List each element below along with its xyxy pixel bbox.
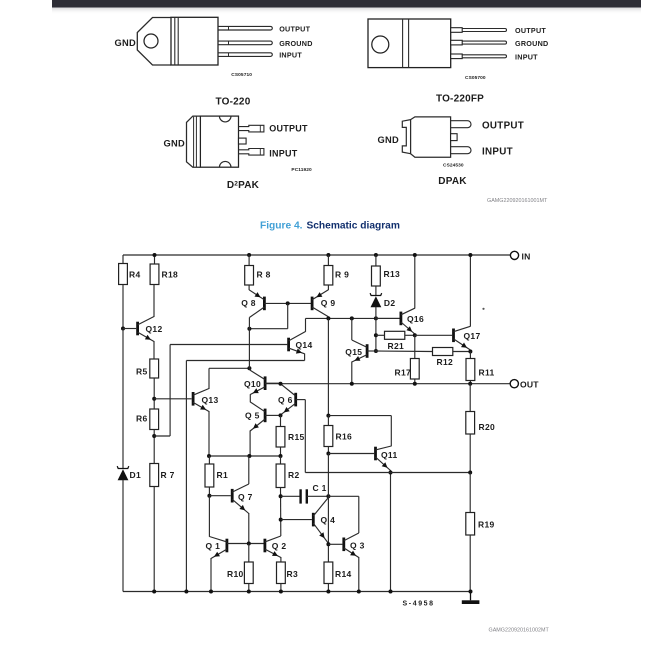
D2PAK tab outline — [187, 116, 201, 167]
wire Q1 emitter drop to ground rail — [210, 558, 212, 592]
wire R2 top lead — [280, 456, 282, 464]
wire R9 bottom stub to Q9 emitter — [327, 285, 329, 290]
DPAK lead 2 (INPUT) — [451, 147, 471, 154]
wire base junction drop — [287, 303, 289, 328]
svg-text:INPUT: INPUT — [269, 149, 298, 159]
TO-220 lead 3 (INPUT) — [218, 53, 272, 57]
wire Q13 collector to Q8 collector column — [209, 367, 249, 369]
wire C1 junction to Q3 collector — [328, 495, 358, 497]
ground symbol — [470, 592, 472, 601]
TO-220FP mounting hole — [372, 36, 389, 53]
node Q6 emitter R15 top Q5 base — [279, 413, 283, 417]
TO-220FP body line 2 — [408, 19, 410, 68]
wire R2 bottom column — [280, 488, 282, 537]
svg-text:Q 3: Q 3 — [350, 540, 365, 550]
transistor Q16 — [399, 312, 402, 326]
wire R1 top lead — [208, 456, 210, 464]
wire R8 bottom stub — [248, 285, 250, 290]
transistor Q3 — [342, 538, 345, 552]
node Q15 emitter at OUT rail — [350, 382, 354, 386]
wire Q14 emitter elbow — [304, 354, 306, 361]
wire Q8-Q9 base run — [264, 302, 311, 304]
svg-text:S-4958: S-4958 — [403, 601, 435, 608]
D2PAK top notch — [219, 116, 231, 122]
svg-text:R15: R15 — [288, 432, 305, 442]
svg-text:R 9: R 9 — [335, 270, 349, 280]
wire Q10 base to OUT rail node — [265, 382, 280, 384]
DPAK lead 1 (OUTPUT) — [451, 121, 471, 128]
node Q12 base junction — [121, 327, 125, 331]
svg-text:R12: R12 — [437, 357, 454, 367]
wire Q17 collector riser to rail — [469, 255, 471, 327]
wire R18 bottom to Q12 collector — [153, 285, 155, 318]
wire ground rail — [123, 591, 471, 593]
DPAK body — [411, 117, 451, 157]
wire R21 left lead — [376, 334, 385, 336]
wire R11 bottom lead — [469, 381, 471, 384]
transistor Q9 — [311, 297, 314, 311]
transistor Q15 — [366, 344, 369, 358]
D2PAK bottom notch — [219, 161, 231, 167]
wire R4 bottom to Q12 base node — [122, 285, 124, 329]
resistor R3 — [277, 562, 286, 584]
svg-text:INPUT: INPUT — [482, 146, 513, 157]
wire R12 left run — [376, 350, 433, 353]
svg-text:OUT: OUT — [520, 379, 539, 389]
svg-text:R5: R5 — [136, 367, 147, 377]
resistor R5 — [150, 359, 159, 378]
wire node to D1 — [122, 329, 124, 469]
svg-text:Q 7: Q 7 — [238, 492, 253, 502]
node Q17 emitter R12 R11 — [468, 350, 472, 354]
svg-text:R17: R17 — [395, 368, 412, 378]
svg-text:R14: R14 — [335, 569, 352, 579]
node R6-R7 bus tee — [152, 434, 156, 438]
svg-text:INPUT: INPUT — [279, 51, 302, 60]
node Q7 base tee — [207, 494, 211, 498]
node Q17 collector at rail — [468, 253, 472, 257]
wire R5 to R6 — [153, 378, 155, 409]
svg-text:Q14: Q14 — [296, 340, 313, 350]
svg-text:Q16: Q16 — [407, 314, 424, 324]
resistor R15 — [276, 427, 285, 448]
svg-text:GAMG220920161002MT: GAMG220920161002MT — [489, 628, 550, 634]
svg-text:Q 8: Q 8 — [241, 298, 256, 308]
svg-text:R20: R20 — [479, 422, 496, 432]
wire mid distribution line y318 — [306, 317, 400, 319]
svg-text:Q12: Q12 — [146, 324, 163, 334]
TO-220 body — [171, 17, 218, 65]
svg-text:Q10: Q10 — [244, 379, 261, 389]
node R17 at OUT rail — [413, 382, 417, 386]
transistor Q7 — [231, 489, 234, 503]
wire Q11 emitter junction drop to ground rail — [390, 470, 392, 592]
TO-220FP body line 1 — [402, 19, 404, 68]
TO-220 lead 1 (OUTPUT) — [218, 26, 272, 30]
wire R17 bottom lead — [414, 379, 416, 384]
TO-220 package tab outline — [137, 18, 171, 66]
svg-text:R11: R11 — [479, 368, 495, 378]
D2PAK body — [200, 116, 238, 167]
wire top supply rail (IN rail) — [123, 254, 510, 256]
svg-text:OUTPUT: OUTPUT — [515, 26, 546, 35]
svg-text:CS05700: CS05700 — [465, 75, 486, 81]
svg-text:C 1: C 1 — [313, 483, 327, 493]
wire Q7 collector riser — [248, 456, 250, 484]
terminal OUT — [510, 380, 518, 388]
resistor R21 — [385, 331, 405, 339]
wire Q6 base drop — [304, 400, 306, 473]
wire Q5 emitter drop — [249, 431, 251, 457]
svg-text:CS05710: CS05710 — [231, 72, 252, 78]
wire bus2 vertical to ground rail — [185, 361, 187, 592]
wire Q15 base stub — [367, 350, 376, 352]
wire Q12 emitter to R5 — [153, 341, 155, 359]
wire R11 top lead — [469, 352, 471, 359]
node Q16 emitter R21 R17 — [413, 333, 417, 337]
wire R10 bottom lead — [248, 584, 250, 592]
resistor R6 — [150, 409, 159, 430]
resistor R7 — [150, 464, 159, 487]
svg-text:GROUND: GROUND — [515, 39, 548, 48]
transistor Q10 — [264, 376, 267, 390]
node R5-R6 Q13 base tee — [152, 397, 156, 401]
wire Q8 collector column — [248, 318, 250, 370]
svg-text:OUTPUT: OUTPUT — [279, 24, 310, 33]
transistor Q6 — [294, 393, 297, 407]
TO-220 lead 2 (GROUND) — [218, 41, 272, 45]
wire bus1 vertical — [169, 345, 171, 437]
wire Q1-Q2 base run — [227, 543, 265, 545]
svg-text:GND: GND — [115, 38, 137, 48]
node R21 left tee — [374, 333, 378, 337]
node R13 at rail — [374, 253, 378, 257]
svg-text:OUTPUT: OUTPUT — [269, 124, 308, 134]
svg-text:R21: R21 — [388, 341, 405, 351]
resistor R13 — [372, 266, 381, 286]
transistor Q2 — [263, 539, 266, 553]
svg-text:D2PAK: D2PAK — [227, 180, 260, 191]
node R16 bottom Q11 base — [326, 452, 330, 456]
svg-text:Q 2: Q 2 — [272, 541, 287, 551]
D2PAK middle stub — [239, 138, 247, 144]
resistor R17 — [410, 359, 419, 380]
wire D2 to Q15 base column — [375, 307, 377, 351]
node Q9 collector at line — [326, 316, 330, 320]
wire R16 bottom lead — [327, 447, 329, 454]
wire Q11 base run — [328, 453, 374, 455]
node Q11 collector tee — [326, 414, 330, 418]
node Q4 emitter Q3 base — [326, 542, 330, 546]
wire bus1 horizontal upper to Q14 base — [170, 344, 287, 346]
svg-text:R 7: R 7 — [161, 470, 175, 480]
svg-text:DPAK: DPAK — [438, 176, 467, 187]
svg-text:Q17: Q17 — [464, 331, 481, 341]
svg-text:Q13: Q13 — [202, 395, 219, 405]
transistor Q17 — [452, 329, 455, 343]
resistor R19 — [466, 513, 475, 536]
wire Q10 emitter link — [249, 394, 251, 402]
wire R21 right lead — [405, 334, 415, 336]
transistor Q11 — [374, 447, 377, 461]
transistor Q4 — [312, 513, 315, 527]
node ground rail R7 — [152, 590, 156, 594]
node C1 right junction — [326, 494, 330, 498]
svg-text:R 8: R 8 — [257, 270, 271, 280]
transistor Q14 — [287, 338, 290, 352]
svg-text:CS24530: CS24530 — [443, 163, 464, 169]
wire column Q9-R14 mid segment — [327, 454, 329, 563]
wire R13 to D2 — [375, 286, 377, 296]
resistor R9 — [324, 266, 333, 286]
node R9 at rail — [326, 253, 330, 257]
svg-text:IN: IN — [522, 251, 531, 261]
svg-text:TO-220: TO-220 — [216, 97, 251, 108]
terminal IN — [510, 251, 518, 259]
TO-220FP lead 2 (GROUND) — [451, 40, 463, 45]
top banner bar — [52, 0, 641, 8]
transistor Q8 — [263, 297, 266, 311]
TO-220FP lead 1 (OUTPUT) — [451, 28, 463, 33]
svg-text:GND: GND — [164, 139, 186, 149]
D2PAK tab line 1 — [193, 117, 195, 167]
wire left rail drop to R4 — [122, 255, 124, 264]
resistor R2 — [276, 464, 285, 488]
wire Q11 collector drop — [390, 416, 392, 447]
wire line y456 — [209, 455, 281, 457]
wire Q16 base — [376, 317, 400, 319]
wire R6 bottom to R7 — [153, 430, 155, 464]
svg-text:Q 1: Q 1 — [206, 541, 221, 551]
svg-text:PC11920: PC11920 — [291, 167, 312, 173]
wire bus1 horizontal lower — [154, 435, 170, 437]
svg-text:Figure 4.Schematic diagram: Figure 4.Schematic diagram — [260, 221, 400, 232]
node ground rail R14 — [326, 590, 330, 594]
svg-text:R2: R2 — [288, 470, 299, 480]
wire R18 top lead — [154, 255, 156, 264]
node R20 R19 feedback junction — [468, 471, 472, 475]
wire Q2 emitter to R3 — [280, 557, 282, 562]
wire R9 top lead — [327, 255, 329, 266]
node R15-R2 — [279, 454, 283, 458]
svg-text:R4: R4 — [129, 270, 140, 280]
wire Q14 collector riser — [305, 318, 307, 331]
svg-text:D1: D1 — [130, 470, 141, 480]
svg-text:R6: R6 — [136, 414, 147, 424]
node R18 at rail — [153, 253, 157, 257]
node base junction Q8-Q9 — [286, 301, 290, 305]
svg-text:Q 9: Q 9 — [321, 298, 336, 308]
wire Q7 base run — [209, 495, 230, 497]
node on Q8 collector column — [247, 366, 251, 370]
DPAK tab outline — [402, 120, 410, 154]
resistor R10 — [244, 562, 253, 584]
resistor R8 — [245, 266, 254, 286]
node ground rail bus2 — [184, 590, 188, 594]
node Q15 riser at line — [350, 316, 354, 320]
svg-text:INPUT: INPUT — [515, 53, 538, 62]
stray speck — [482, 308, 484, 310]
TO-220 body line 2 — [177, 17, 179, 65]
wire Q15 emitter drop to OUT rail — [351, 362, 353, 384]
wire R7 to ground rail — [153, 487, 155, 592]
node R1 top — [207, 454, 211, 458]
D2PAK lead 2 (INPUT) — [239, 149, 264, 156]
svg-text:R13: R13 — [384, 269, 401, 279]
wire Q12 base — [123, 328, 136, 330]
wire R10 top lead — [248, 544, 250, 563]
node Q16 collector at rail — [413, 253, 417, 257]
node Q15 base — [374, 349, 378, 353]
TO-220FP lead 3 (INPUT) — [451, 54, 463, 59]
wire Q3 emitter drop to ground rail — [358, 557, 360, 592]
node ground rail Q1 emitter — [209, 590, 213, 594]
wire Q5 base — [265, 414, 280, 416]
svg-text:R3: R3 — [287, 569, 298, 579]
node ground rail R3 — [279, 590, 283, 594]
node base run R10 Q7 — [247, 542, 251, 546]
diode D2 — [370, 293, 382, 295]
wire R3 bottom lead — [280, 584, 282, 592]
wire Q9 collector long column — [327, 318, 329, 415]
wire Q1 collector column — [208, 496, 210, 537]
node Q10 base Q6 collector — [279, 382, 283, 386]
wire R20 bottom lead — [469, 434, 471, 473]
wire base loop to Q8 collector column — [249, 328, 287, 330]
wire OUT rail — [265, 383, 510, 385]
D2PAK tab line 2 — [195, 116, 197, 167]
wire R20 top lead — [469, 384, 471, 412]
wire R13 top lead — [375, 255, 377, 266]
wire Q15 collector riser — [351, 318, 353, 340]
svg-text:R1: R1 — [217, 470, 228, 480]
svg-text:OUTPUT: OUTPUT — [482, 120, 524, 131]
wire Q3 base run — [328, 543, 342, 545]
wire R14 bottom lead — [327, 584, 329, 592]
svg-text:R18: R18 — [162, 270, 179, 280]
node ground rail Q3 emitter — [357, 590, 361, 594]
wire Q6 base stub — [296, 399, 306, 401]
diode D1 — [117, 466, 129, 468]
svg-text:TO-220FP: TO-220FP — [436, 94, 484, 105]
node ground rail R10 — [247, 590, 251, 594]
wire R8 top lead — [248, 255, 250, 266]
node ground rail end — [469, 590, 473, 594]
wire Q7 emitter drop — [248, 513, 250, 544]
wire Q13 collector riser — [208, 368, 210, 389]
wire bus2 horizontal from Q14 emitter — [186, 360, 304, 362]
svg-text:GROUND: GROUND — [279, 39, 312, 48]
wire Q3 collector riser — [358, 496, 360, 533]
wire Q13 base run — [154, 398, 191, 400]
svg-text:Q 4: Q 4 — [321, 515, 336, 525]
node Q7 collector — [247, 454, 251, 458]
svg-text:D2: D2 — [384, 298, 395, 308]
svg-text:GND: GND — [378, 135, 400, 145]
svg-text:R19: R19 — [478, 520, 495, 530]
resistor R4 — [119, 264, 128, 285]
transistor Q1 — [225, 539, 228, 553]
transistor Q12 — [136, 322, 139, 336]
node D2 chain at line — [374, 316, 378, 320]
wire R19 bottom lead — [469, 535, 471, 592]
resistor R14 — [324, 562, 333, 584]
svg-text:R10: R10 — [227, 569, 244, 579]
wire R19 top lead — [469, 473, 471, 513]
node C1 left tee — [279, 494, 283, 498]
resistor R16 — [324, 426, 333, 447]
node R11 R20 at OUT rail — [468, 382, 472, 386]
svg-text:Q15: Q15 — [345, 347, 362, 357]
wire R17 top lead — [414, 335, 416, 358]
transistor Q5 — [264, 409, 267, 423]
node Q8 collector column loop — [247, 327, 251, 331]
wire R12 right lead — [453, 351, 471, 353]
wire to Q11 collector — [328, 415, 391, 417]
resistor R12 — [433, 348, 453, 356]
TO-220 mounting hole — [144, 34, 158, 48]
wire R15 bottom lead — [280, 447, 282, 456]
wire R15 top lead — [280, 415, 282, 426]
D2PAK lead 1 (OUTPUT) — [239, 125, 264, 132]
node R8 at rail — [247, 253, 251, 257]
wire Q4 base run — [281, 519, 312, 521]
transistor Q13 — [192, 392, 195, 406]
svg-text:Q 6: Q 6 — [278, 395, 293, 405]
wire Q16-Q17 base run — [415, 334, 452, 336]
wire feedback line y472 left segment — [305, 472, 390, 474]
node Q4 base tee — [279, 518, 283, 522]
wire R1 bottom to Q7 base node — [208, 487, 210, 496]
svg-text:GAMG220920161001MT: GAMG220920161001MT — [487, 198, 548, 204]
node ground rail Q11 emitter — [389, 590, 393, 594]
wire feedback line y472 right segment — [391, 472, 471, 474]
resistor R11 — [466, 359, 475, 381]
resistor R18 — [150, 264, 159, 285]
wire Q13 emitter drop to R1 node — [208, 411, 210, 456]
resistor R1 — [205, 464, 214, 487]
svg-text:Q11: Q11 — [381, 450, 398, 460]
node Q11 emitter junction — [389, 471, 393, 475]
capacitor C1 — [281, 495, 301, 497]
wire Q16 collector riser to rail — [414, 255, 416, 309]
DPAK middle stub — [451, 134, 458, 141]
TO-220 body line 1 — [174, 17, 176, 65]
svg-text:Q 5: Q 5 — [245, 410, 260, 420]
wire D1 to ground rail — [122, 480, 124, 592]
TO-220FP body — [368, 19, 451, 68]
wire R16 top lead — [327, 416, 329, 426]
resistor R20 — [466, 412, 475, 435]
svg-text:R16: R16 — [336, 432, 353, 442]
